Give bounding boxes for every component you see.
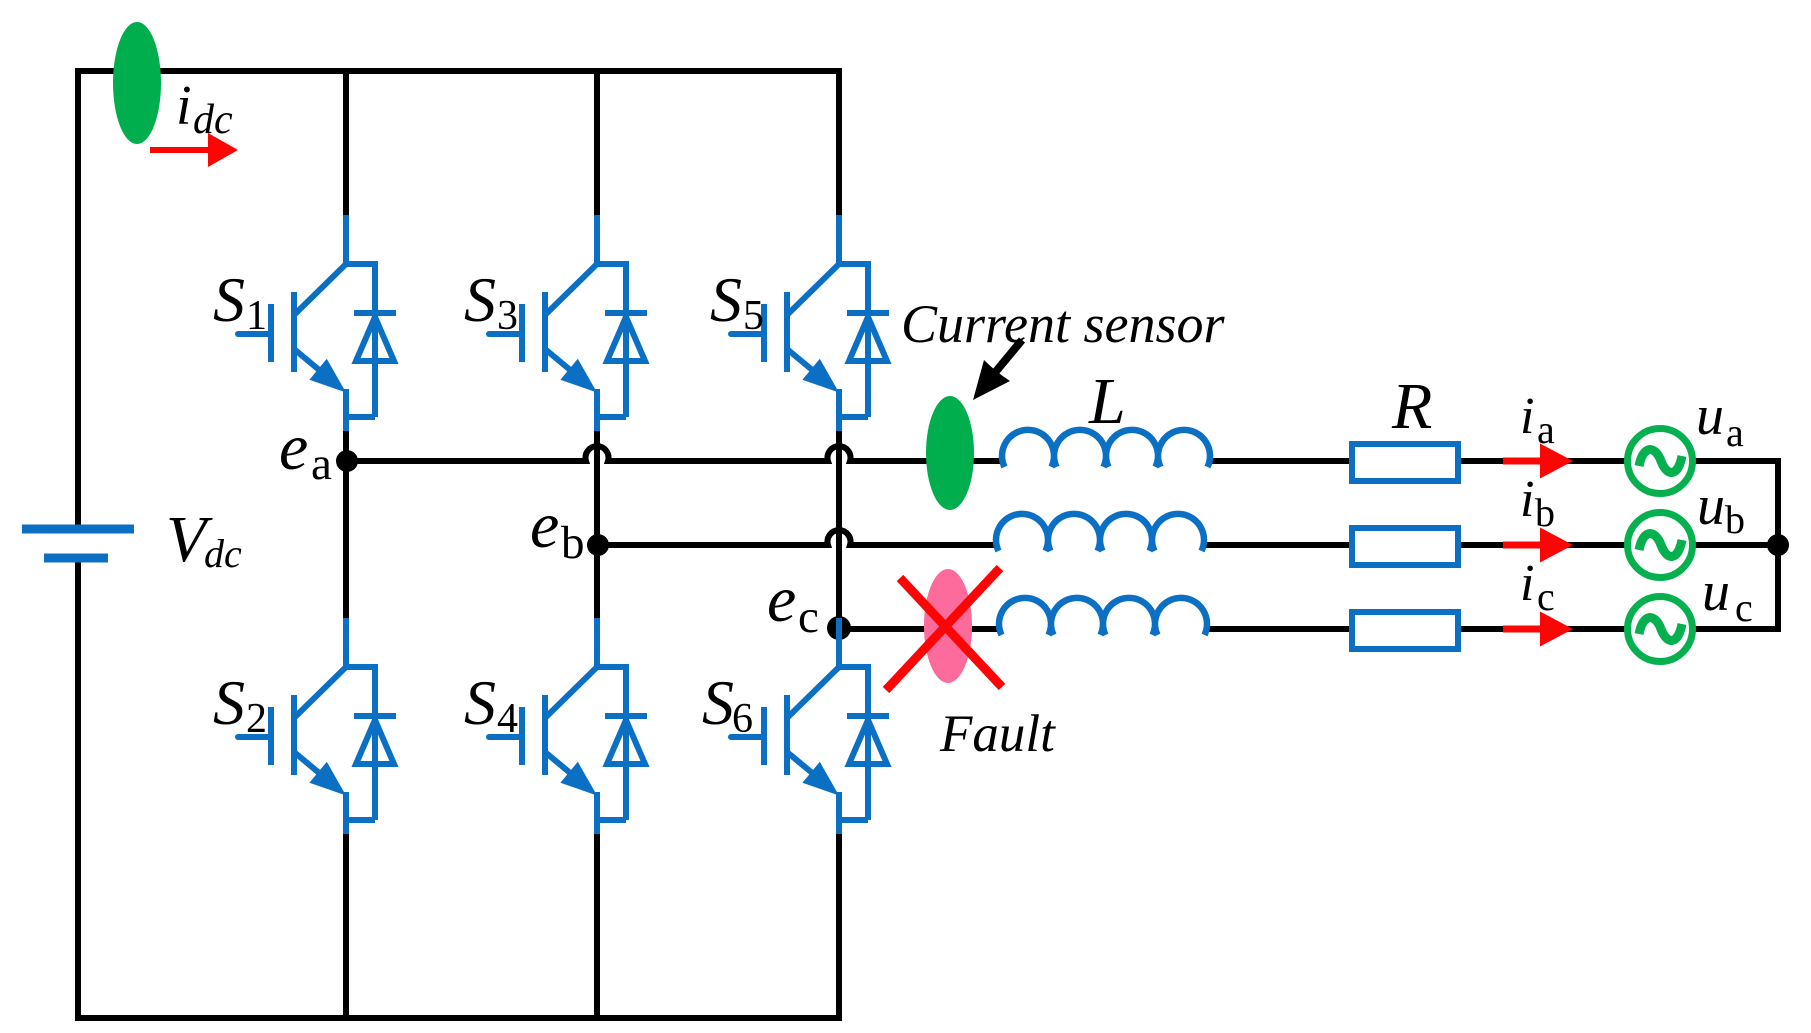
svg-text:e: e (530, 489, 559, 562)
svg-text:e: e (279, 411, 308, 484)
svg-text:a: a (1537, 407, 1555, 452)
svg-text:S: S (464, 264, 496, 335)
svg-text:c: c (798, 591, 819, 643)
svg-text:Fault: Fault (939, 705, 1056, 763)
svg-text:S: S (710, 264, 742, 335)
svg-text:Current sensor: Current sensor (901, 294, 1226, 354)
svg-text:a: a (1726, 410, 1744, 455)
svg-text:i: i (1520, 388, 1534, 445)
svg-text:c: c (1735, 585, 1753, 630)
svg-text:b: b (561, 517, 585, 569)
svg-text:S: S (213, 667, 245, 738)
svg-text:L: L (1088, 365, 1126, 438)
svg-text:4: 4 (497, 696, 518, 742)
svg-text:S: S (702, 667, 734, 738)
svg-text:6: 6 (732, 696, 753, 742)
svg-text:1: 1 (246, 293, 267, 339)
svg-text:u: u (1697, 475, 1725, 537)
svg-text:b: b (1535, 490, 1555, 535)
svg-text:b: b (1725, 497, 1745, 542)
svg-text:e: e (767, 563, 796, 636)
svg-text:u: u (1702, 561, 1730, 623)
svg-text:R: R (1391, 370, 1432, 443)
svg-text:dc: dc (204, 531, 242, 576)
svg-text:S: S (464, 667, 496, 738)
svg-text:u: u (1696, 385, 1724, 447)
svg-text:a: a (311, 438, 332, 490)
svg-text:2: 2 (246, 696, 267, 742)
svg-text:3: 3 (497, 293, 518, 339)
svg-text:dc: dc (193, 97, 233, 143)
svg-text:i: i (1520, 555, 1534, 612)
svg-text:i: i (176, 75, 192, 137)
svg-text:5: 5 (743, 293, 764, 339)
svg-text:c: c (1537, 574, 1555, 619)
svg-text:S: S (213, 264, 245, 335)
svg-text:i: i (1520, 471, 1534, 528)
